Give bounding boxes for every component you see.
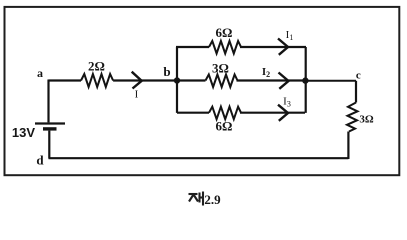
wire bottom branch right — [240, 112, 305, 114]
svg-text:b: b — [163, 64, 170, 79]
svg-text:I1: I1 — [286, 29, 294, 42]
wire left vertical (a down to battery) — [47, 80, 49, 123]
battery 13V positive plate — [35, 122, 65, 124]
wire parallel-box right vertical — [305, 47, 307, 113]
current arrow I1 — [278, 39, 288, 55]
wire middle branch right — [237, 79, 306, 81]
wire 2-ohm to node b — [113, 79, 177, 81]
svg-text:2.9: 2.9 — [204, 192, 221, 207]
junction dot b — [174, 77, 180, 83]
wire parallel-box left vertical at b — [176, 47, 178, 113]
svg-text:d: d — [36, 153, 44, 168]
wire battery down to node d — [48, 131, 50, 159]
svg-text:13V: 13V — [12, 125, 35, 140]
resistor R4 6ohm bottom — [209, 107, 241, 120]
svg-text:a: a — [37, 66, 43, 80]
svg-text:I3: I3 — [283, 96, 291, 109]
resistor R2 6ohm top — [209, 41, 241, 54]
wire top branch right — [240, 46, 306, 48]
svg-text:I2: I2 — [262, 66, 270, 79]
figure frame (decorative) — [5, 7, 400, 175]
svg-text:3Ω: 3Ω — [359, 114, 374, 126]
wire a to 2-ohm resistor — [49, 79, 82, 81]
wire junction to node c — [305, 80, 356, 82]
current arrow I3 — [278, 105, 288, 121]
svg-text:6Ω: 6Ω — [216, 119, 233, 134]
resistor R5 3ohm right vertical — [347, 103, 358, 132]
wire middle branch left — [177, 79, 206, 81]
caption: figure label (hangul glyph drawn with strokes) — [189, 192, 204, 206]
svg-text:3Ω: 3Ω — [212, 61, 229, 76]
wire top branch left — [176, 46, 209, 48]
resistor R3 3ohm middle — [206, 75, 238, 88]
junction dot at right of parallel box — [302, 77, 308, 83]
wire resistor down to bottom wire — [347, 132, 349, 160]
current arrow I — [132, 72, 142, 89]
battery 13V negative plate — [43, 127, 57, 130]
svg-text:I: I — [135, 89, 139, 101]
resistor R1 2ohm — [81, 74, 113, 87]
svg-text:6Ω: 6Ω — [216, 25, 233, 40]
svg-text:2Ω: 2Ω — [88, 59, 105, 74]
svg-text:c: c — [356, 69, 361, 81]
wire bottom d to right branch — [49, 157, 349, 159]
wire c down to resistor — [355, 81, 357, 103]
wire bottom branch left — [177, 112, 209, 114]
current arrow I2 — [279, 73, 289, 89]
